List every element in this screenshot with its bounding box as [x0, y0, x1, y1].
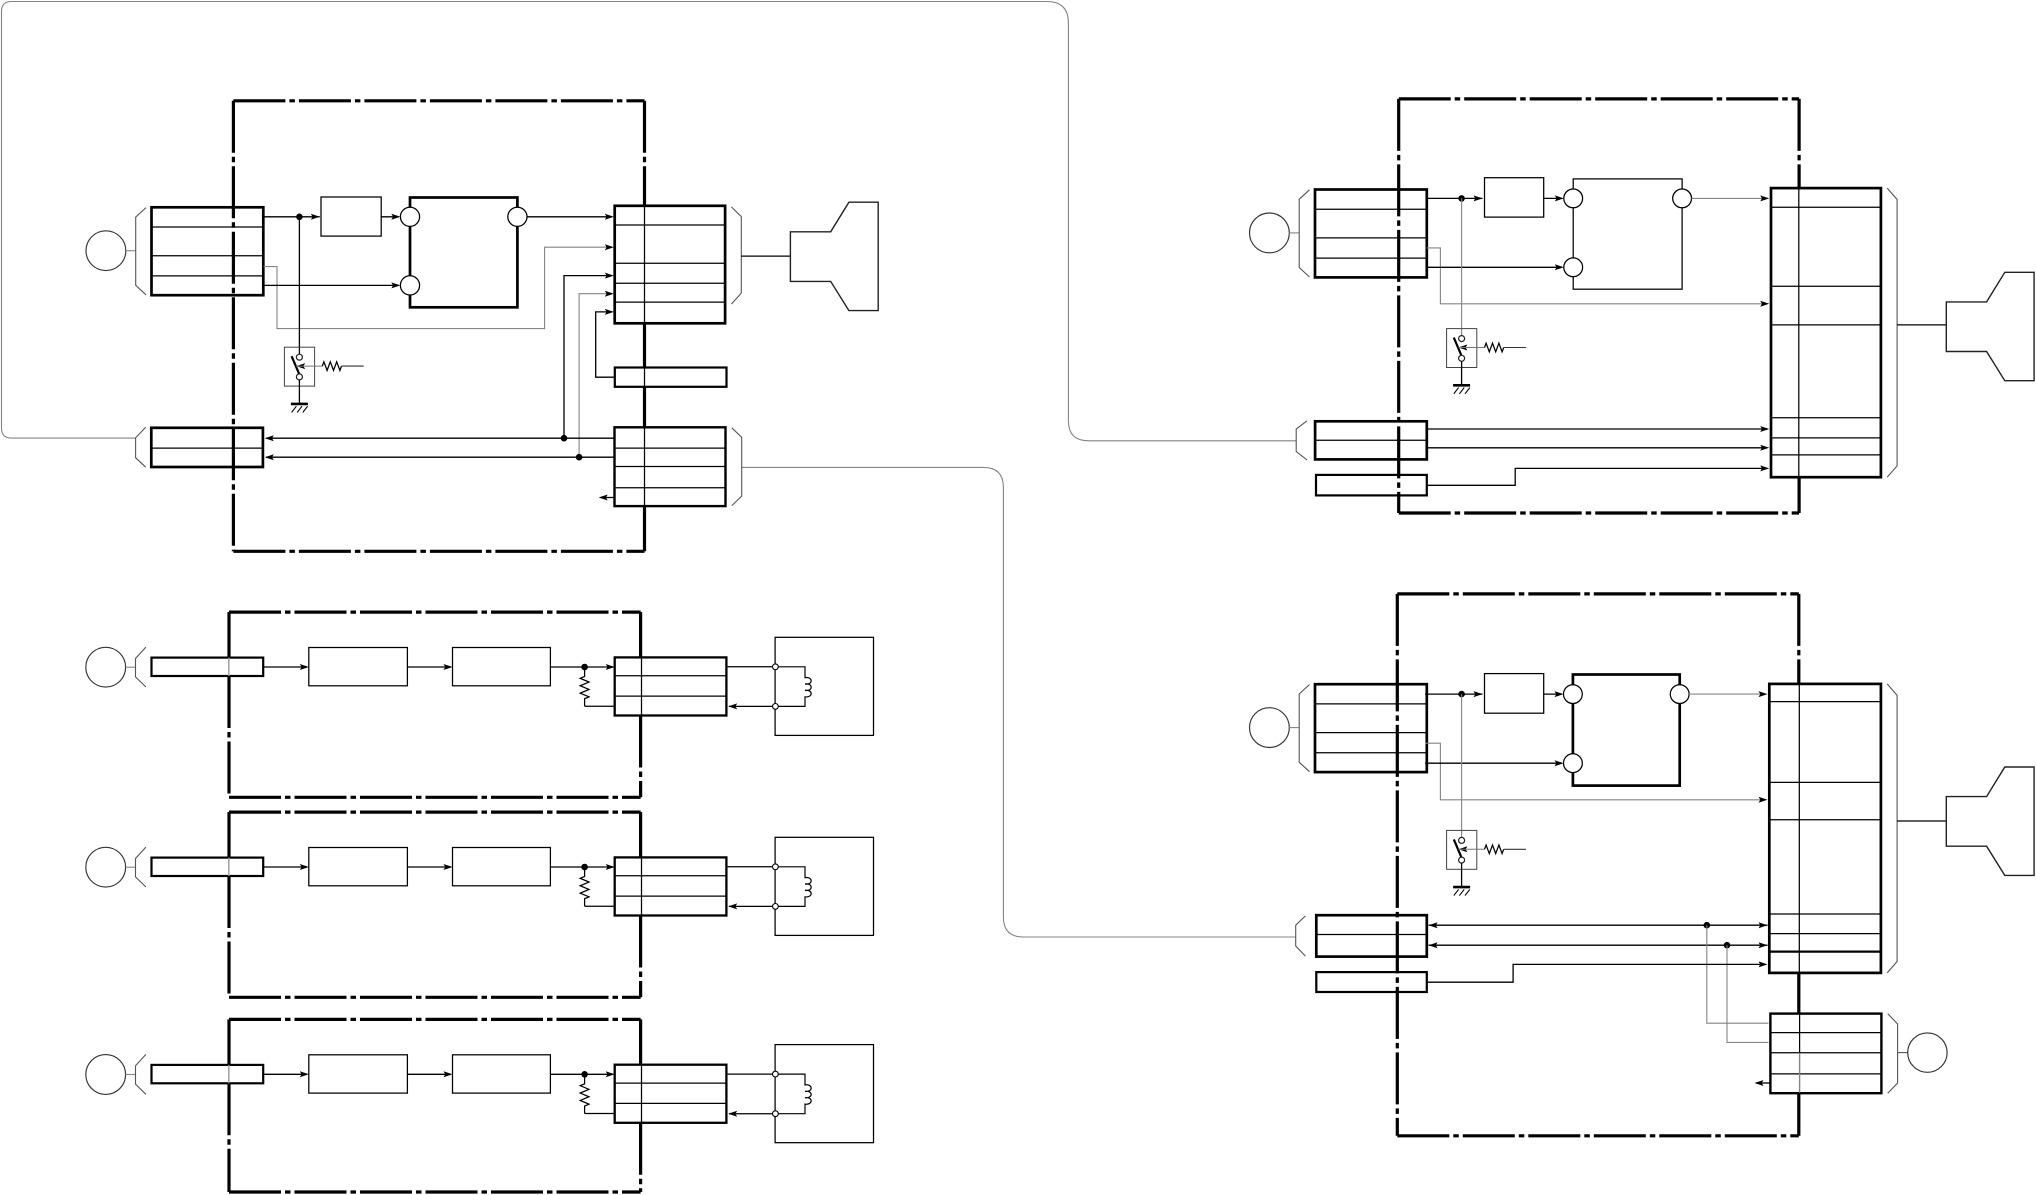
resistor R-S1 [322, 362, 341, 371]
dash-dot enclosure (left unit 2) left edge segments [227, 812, 230, 858]
wire (RL2 to PL2 row3) [585, 905, 615, 907]
dash-dot enclosure (top-right unit) top edge [1399, 97, 1799, 100]
wire: long interconnect from amplifier (top-left) to tuner unit (top-right), routed around page top-left [2, 2, 1297, 441]
wire (JL1 to filter F1) [263, 666, 307, 668]
wire (A1 to U1 input) [381, 216, 399, 218]
connector bracket (JL2 plug) [136, 847, 146, 887]
receiver box RX2 [775, 837, 873, 935]
wire (JL2 to filter F2) [263, 866, 307, 868]
connector P3 (lower, 4 rows) [615, 427, 726, 506]
preamp block A2 [1485, 178, 1544, 217]
connector P1 divider [644, 206, 646, 323]
resistor RL2 (termination) [580, 867, 589, 906]
switch S2 blade [1454, 338, 1461, 355]
wire (MIC-L1 lead) [126, 666, 136, 668]
connector PL1 (3 rows) [615, 657, 727, 715]
dash-dot enclosure (bottom-right unit) bottom edge [1397, 1134, 1799, 1137]
connector bracket (J4 plug) [1296, 421, 1307, 460]
connector P5 divider [1798, 684, 1800, 973]
wire (J8 to P5 row7) [1427, 964, 1764, 982]
connector PL2 divider [641, 857, 643, 915]
wire (P1 row5 from middle connector) [596, 312, 615, 377]
wire (gray segment through P6 divider) [1799, 1053, 1801, 1093]
switch S1 (mute switch) [284, 347, 314, 386]
connector bracket (P6 mate) [1888, 1014, 1898, 1094]
wire (junction to mute switch S1) [298, 217, 300, 354]
node (junction wire to handset connector row2) [1724, 942, 1731, 949]
connector JL1 (1 row) [152, 658, 264, 676]
microphone MIC-L3 [86, 1055, 126, 1095]
connector P5 (main, 7 rows) [1769, 684, 1881, 973]
resistor RL1 (termination) [580, 667, 589, 706]
dash-dot enclosure (left unit 1) top edge [229, 610, 641, 613]
wire (J7 row2 to P5 row6, double arrows) [1429, 944, 1768, 946]
microphone MIC-L2 [86, 847, 126, 887]
connector J4 (2 rows) [1315, 421, 1427, 459]
dash-dot enclosure (top-left unit) bottom edge [233, 550, 644, 553]
wire (B3 to connector PL3 row1) [550, 1073, 613, 1075]
wire (RL1 to PL1 row3) [585, 705, 615, 707]
connector bracket (JL3 plug) [136, 1054, 146, 1094]
terminal (RX3 +) [773, 1071, 779, 1077]
connector P4 (main, 7 rows) [1771, 188, 1881, 477]
connector bracket (mic J6 plug) [1299, 685, 1309, 772]
connector PL3 divider [641, 1065, 643, 1123]
connector P2 (middle, 1 row) [615, 368, 727, 387]
wire (F2 to amp B2) [407, 866, 450, 868]
pin (U3 out) [1670, 685, 1689, 704]
dash-dot enclosure (left unit 2) right edge segments [639, 812, 642, 857]
connector P4 divider [1798, 188, 1800, 477]
connector P2 divider [644, 368, 646, 387]
connector bracket (J7 plug) [1296, 916, 1306, 956]
wire (resistor S1 tail) [342, 365, 364, 367]
wire (J6 row1 to preamp A3) [1425, 693, 1475, 695]
receiver box RX3 [775, 1045, 873, 1143]
node (junction on mic line, bottom-right) [1458, 691, 1465, 698]
wire (P3 row1 to J2, black) [266, 437, 615, 439]
wire (P3 row4 output arrow) [601, 497, 615, 499]
wire (RX3 return to PL3 row3) [729, 1113, 773, 1115]
dash-dot enclosure (top-left unit) right edge segments [643, 101, 646, 206]
pin (U1 in-) [400, 276, 419, 295]
wire (J5 to P4 row7) [1427, 468, 1766, 485]
terminal (RX1 +) [773, 664, 779, 670]
dash-dot enclosure (top-left unit) top edge [233, 99, 644, 102]
connector PL2 (3 rows) [615, 857, 727, 915]
op-amp / IC U1 [410, 198, 517, 308]
wire (F1 to amp B1) [407, 666, 450, 668]
connector J7 (2 rows) [1316, 915, 1427, 956]
wire (RX1 return to PL1 row3) [729, 705, 773, 707]
wire (JL3 to filter F3) [263, 1073, 307, 1075]
terminal (RX2 -) [773, 904, 779, 910]
ground (below S3) [1453, 886, 1470, 889]
connector bracket (mic J3 plug) [1299, 190, 1309, 277]
amp block B3 [453, 1055, 551, 1093]
wire (PL1 row1 to receiver coil box) [726, 666, 772, 668]
node (junction wire2 / return gray) [576, 454, 583, 461]
connector J2 (2 rows) [151, 428, 263, 467]
node (junction at resistor RL1) [581, 664, 588, 671]
wire (P1 to speaker SP1) [741, 255, 790, 257]
wire (B1 to connector PL1 row1) [550, 666, 613, 668]
inductor (RX1 coil) [778, 667, 811, 707]
connector P6 (handset, 4 rows) [1770, 1014, 1881, 1094]
wire (drop to handset connector row1, gray) [1707, 925, 1769, 1023]
connector JL1 divider [228, 658, 230, 676]
node (junction on mic line, top-right) [1458, 195, 1465, 202]
microphone J1 [86, 231, 126, 271]
op-amp / IC U3 [1573, 675, 1680, 786]
wire: long interconnect from top-left unit lower connector to bottom-right unit, routed through page middle [741, 467, 1296, 937]
wire (J6 row4 to U3 in-) [1425, 762, 1562, 764]
dash-dot enclosure (top-right unit) right edge segments [1797, 99, 1800, 188]
wire (A3 to U3 input) [1544, 693, 1562, 695]
switch S2 actuate arrow [1458, 345, 1467, 351]
wire (PL2 row1 to receiver coil box) [726, 866, 772, 868]
node (junction at resistor RL2) [581, 864, 588, 871]
wire (J3 row1 to preamp A2) [1427, 197, 1475, 199]
wire (PL3 row1 to receiver coil box) [726, 1073, 772, 1075]
filter block F1 [309, 648, 408, 686]
switch S1 actuate arrow [296, 363, 305, 369]
wire (mic J6 lead) [1289, 727, 1299, 729]
dash-dot enclosure (top-left unit) left edge [232, 101, 235, 552]
dash-dot enclosure (top-right unit) bottom edge [1399, 511, 1799, 514]
wire (switch S1 to ground) [298, 380, 300, 404]
dash-dot enclosure (left unit 2) top edge [229, 810, 641, 813]
connector PL1 divider [641, 657, 643, 715]
connector JL3 (1 row) [152, 1065, 264, 1083]
wire (A2 to U2 input) [1544, 197, 1562, 199]
terminal (RX3 -) [773, 1111, 779, 1117]
wire (drop to handset connector row2, gray) [1727, 945, 1769, 1042]
switch S3 (mute switch) [1447, 830, 1477, 869]
wire (J1 row3 feedback path, gray) [264, 247, 611, 328]
connector JL2 (1 row) [152, 858, 264, 876]
wire (P6 to handset microphone) [1898, 1052, 1908, 1054]
wire (P3 row2 to J2) [266, 456, 615, 458]
pin (U1 out) [508, 207, 527, 226]
op-amp / IC U2 [1573, 179, 1682, 289]
wire (P4 to speaker SP2) [1897, 324, 1946, 326]
wire (J3 row4 to U2 in-) [1427, 266, 1562, 268]
terminal (RX2 +) [773, 864, 779, 870]
connector J8 (1 row) [1316, 972, 1427, 992]
pin (U2 in+) [1564, 189, 1583, 208]
wire (resistor S3 tail) [1504, 848, 1526, 850]
receiver box RX1 [775, 637, 873, 735]
pin (U2 out) [1673, 189, 1692, 208]
connector P3 divider [644, 427, 646, 506]
inductor (RX3 coil) [778, 1074, 811, 1114]
preamp block A1 [321, 197, 381, 236]
microphone MIC-L1 [86, 647, 126, 687]
pin (U1 in+) [400, 207, 419, 226]
connector bracket (P3 mate) [732, 428, 742, 506]
connector bracket (J2 plug) [136, 427, 146, 467]
microphone MIC4 (handset) [1908, 1033, 1947, 1072]
connector bracket (P1 mate) [731, 207, 741, 304]
dash-dot enclosure (bottom-right unit) left edge [1396, 594, 1399, 1136]
connector bracket (P4 mate) [1887, 188, 1897, 477]
wire (mic J3 lead) [1289, 232, 1299, 234]
wire (return line black, P1 row3) [564, 276, 612, 439]
speaker SP3 [1946, 767, 2034, 875]
connector JL2 divider [228, 858, 230, 876]
wire (switch S3 to ground) [1461, 863, 1463, 887]
connector J5 (1 row) [1316, 475, 1427, 496]
wire (J4 row2 to P4 row6) [1427, 447, 1768, 449]
switch S1 blade [292, 356, 299, 373]
node (junction at resistor RL3) [581, 1071, 588, 1078]
connector J3 (4 rows) [1315, 190, 1427, 278]
switch S2 (mute switch) [1447, 329, 1477, 368]
wire (RL3 to PL3 row3) [585, 1113, 615, 1115]
pin (U3 in-) [1564, 754, 1583, 773]
dash-dot enclosure (left unit 3) right edge segments [639, 1019, 642, 1064]
microphone J6 [1250, 708, 1290, 748]
wire (P5 to speaker SP3) [1897, 820, 1946, 822]
node (junction wire to handset connector row1) [1704, 922, 1711, 929]
wire (junction to mute switch S3, gray) [1461, 694, 1463, 837]
connector P1 (main output, 5 rows) [615, 206, 725, 323]
dash-dot enclosure (bottom-right unit) top edge [1397, 592, 1799, 595]
resistor RL3 (termination) [580, 1074, 589, 1113]
wire (J6 row3 feedback path, gray) [1425, 743, 1764, 800]
ground (below S2) [1453, 384, 1470, 387]
wire (U1 out to main connector row1) [527, 216, 612, 218]
dash-dot enclosure (left unit 2) bottom edge [229, 996, 641, 999]
amp block B2 [453, 848, 551, 886]
wire (U2 out to connector P4 row1, gray) [1692, 197, 1768, 199]
dash-dot enclosure (bottom-right unit) right edge segments [1797, 594, 1800, 684]
wire (J3 row3 feedback path, gray) [1427, 248, 1766, 304]
connector J1 (4 rows) [152, 207, 264, 295]
microphone J3 [1250, 213, 1290, 253]
resistor R-S3 [1485, 845, 1504, 854]
switch S3 actuate arrow [1458, 846, 1467, 852]
inductor (RX2 coil) [778, 867, 811, 907]
connector PL3 (3 rows) [615, 1065, 727, 1123]
dash-dot enclosure (left unit 3) top edge [229, 1018, 641, 1021]
wire (P6 row4 output arrow) [1756, 1082, 1770, 1084]
wire (MIC-L2 lead) [126, 866, 136, 868]
wire (junction to mute switch S2, gray) [1461, 198, 1463, 335]
wire (return line gray, P1 row4) [579, 294, 610, 458]
node (junction wire1 / return black) [561, 435, 568, 442]
speaker SP1 [790, 202, 878, 310]
dash-dot enclosure (left unit 3) bottom edge [229, 1190, 641, 1193]
wire (mic J1 lead) [126, 250, 136, 252]
speaker SP2 [1946, 272, 2034, 380]
wire (MIC-L3 lead) [126, 1074, 136, 1076]
wire (U3 out to connector P5 row1, gray) [1689, 693, 1766, 695]
pin (U2 in-) [1564, 258, 1583, 277]
connector bracket (mic J1 plug) [136, 208, 146, 295]
connector J6 (4 rows) [1315, 684, 1427, 772]
wire (J4 row1 to P4 row5) [1427, 428, 1768, 430]
dash-dot enclosure (left unit 1) bottom edge [229, 796, 641, 799]
dash-dot enclosure (left unit 3) left edge segments [227, 1019, 230, 1065]
connector JL3 divider [228, 1065, 230, 1083]
wire (F3 to amp B3) [407, 1073, 450, 1075]
node (junction on mic line, top-left) [296, 214, 303, 221]
switch S3 blade [1454, 839, 1461, 856]
resistor R-S2 [1485, 343, 1504, 352]
wire (J1 row1 to preamp) [264, 216, 314, 218]
connector bracket (JL1 plug) [136, 647, 146, 687]
pin (U3 in+) [1564, 685, 1583, 704]
preamp block A3 [1485, 674, 1544, 714]
wire (resistor S2 tail) [1504, 347, 1526, 349]
dash-dot enclosure (left unit 1) right edge segments [639, 612, 642, 657]
wire (RX2 return to PL2 row3) [729, 905, 773, 907]
wire (switch S2 to ground) [1461, 361, 1463, 385]
wire (B2 to connector PL2 row1) [550, 866, 613, 868]
dash-dot enclosure (left unit 1) left edge segments [227, 612, 230, 658]
wire (J1 row4 to U1 in-) [264, 284, 399, 286]
connector P6 divider (upper) [1799, 1014, 1801, 1053]
ground (below S1) [291, 403, 308, 406]
filter block F3 [309, 1055, 408, 1093]
dash-dot enclosure (top-right unit) left edge [1397, 99, 1400, 513]
filter block F2 [309, 848, 408, 886]
terminal (RX1 -) [773, 704, 779, 710]
amp block B1 [453, 648, 551, 686]
connector bracket (P5 mate) [1887, 684, 1897, 973]
wire (J7 row1 to P5 row5, double arrows) [1429, 924, 1768, 926]
